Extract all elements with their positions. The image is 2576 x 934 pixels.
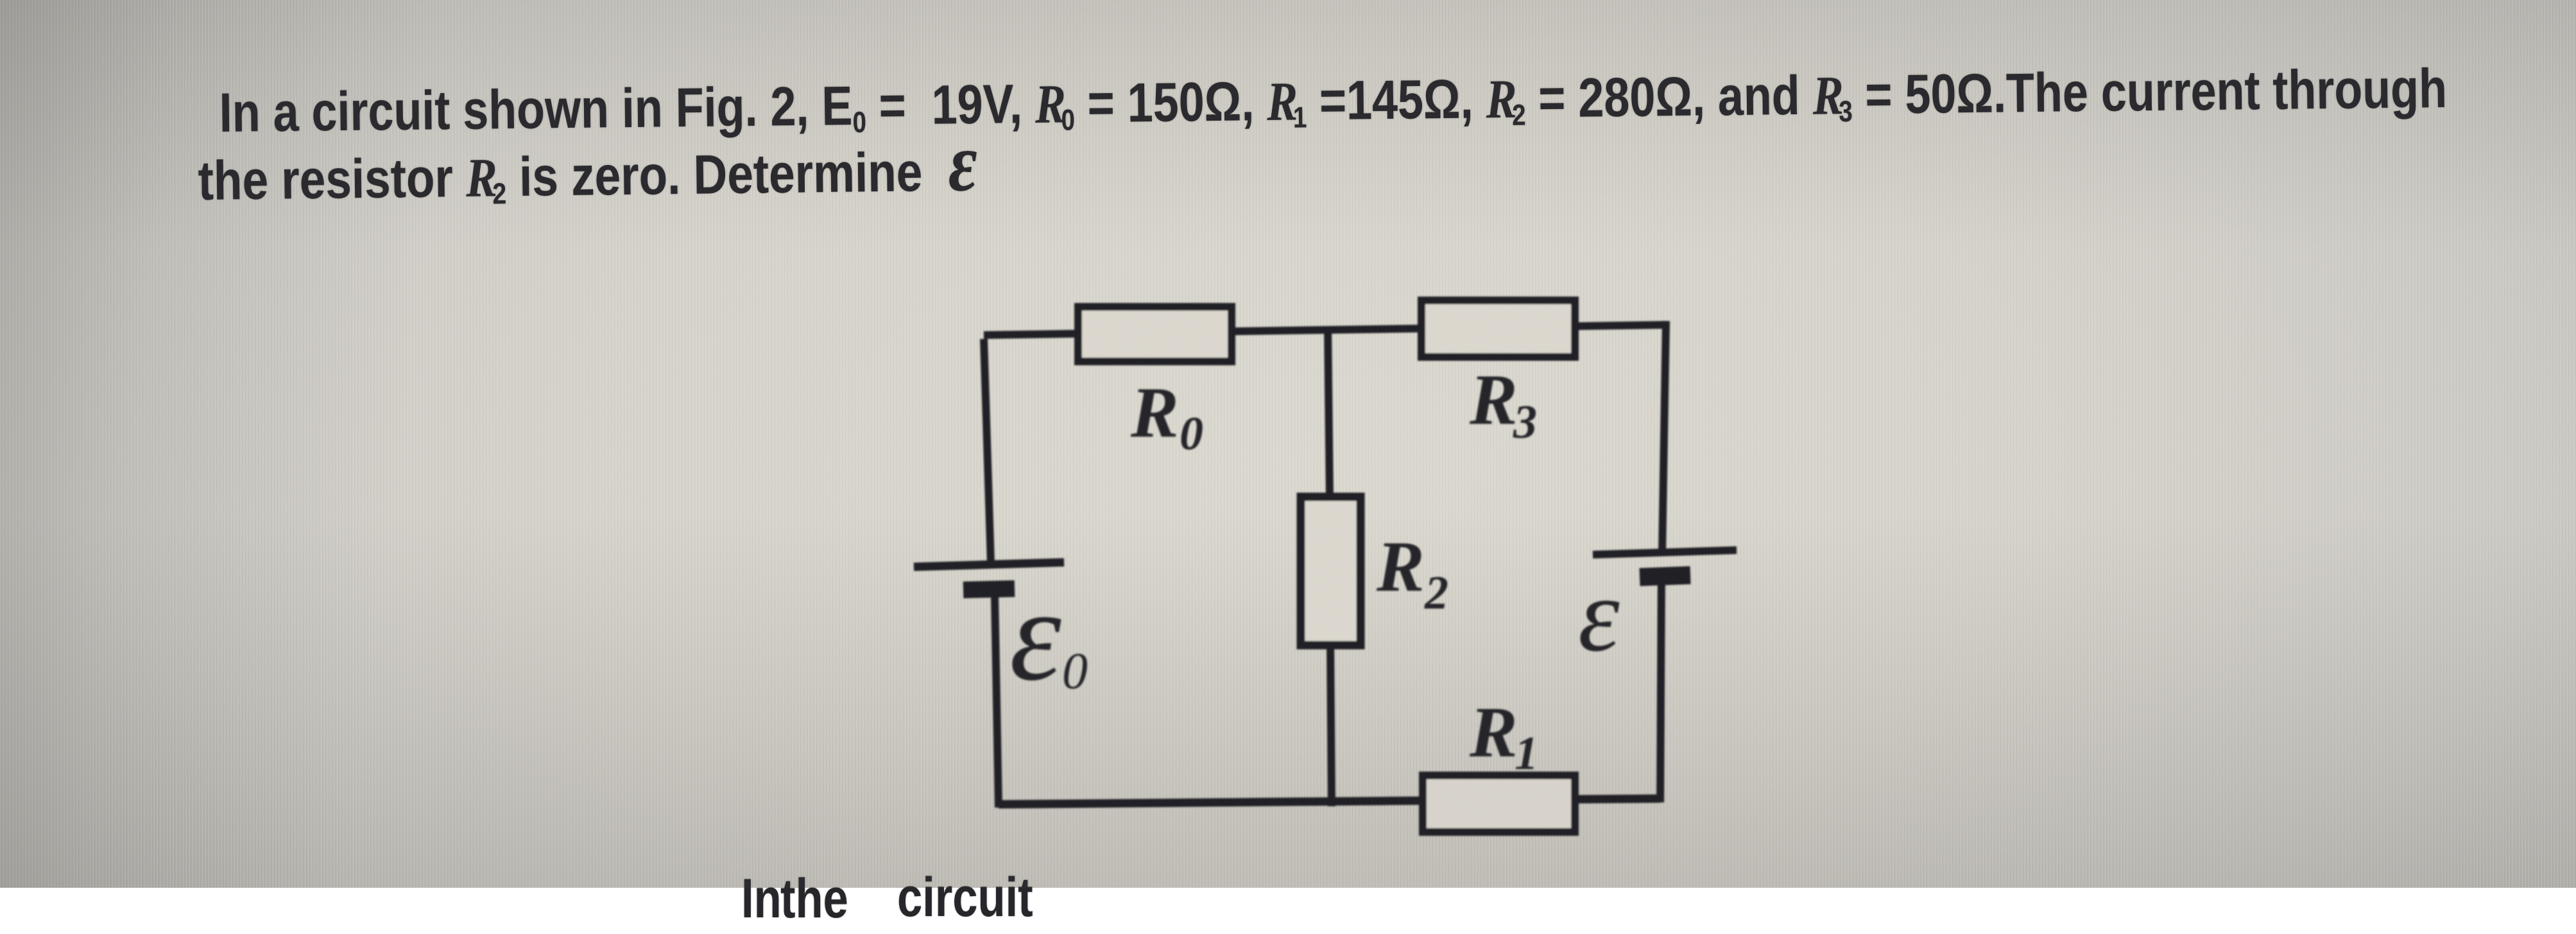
resistor R3 box [1421,300,1575,357]
problem text line 2 [198,136,978,225]
resistor R0 box [1078,307,1232,361]
wire: left wire upper [984,339,991,564]
problem text line 1 [219,53,2448,157]
resistor R2 box [1301,497,1361,645]
wire: middle vertical upper [1328,327,1330,501]
wire: top wire [984,325,1666,335]
wire: right wire lower [1660,574,1662,802]
bottom cut-off text line [741,863,782,934]
resistor R1 box [1423,775,1575,832]
battery EMF short thick plate [1640,575,1690,577]
wire: middle vertical lower [1330,642,1332,806]
wire: right wire upper [1662,321,1666,553]
battery E0 long plate [914,562,1064,567]
battery EMF long plate [1593,550,1737,555]
wire: bottom wire [999,799,1660,804]
battery E0 short thick plate [963,589,1015,590]
wire: left wire lower [995,596,999,808]
